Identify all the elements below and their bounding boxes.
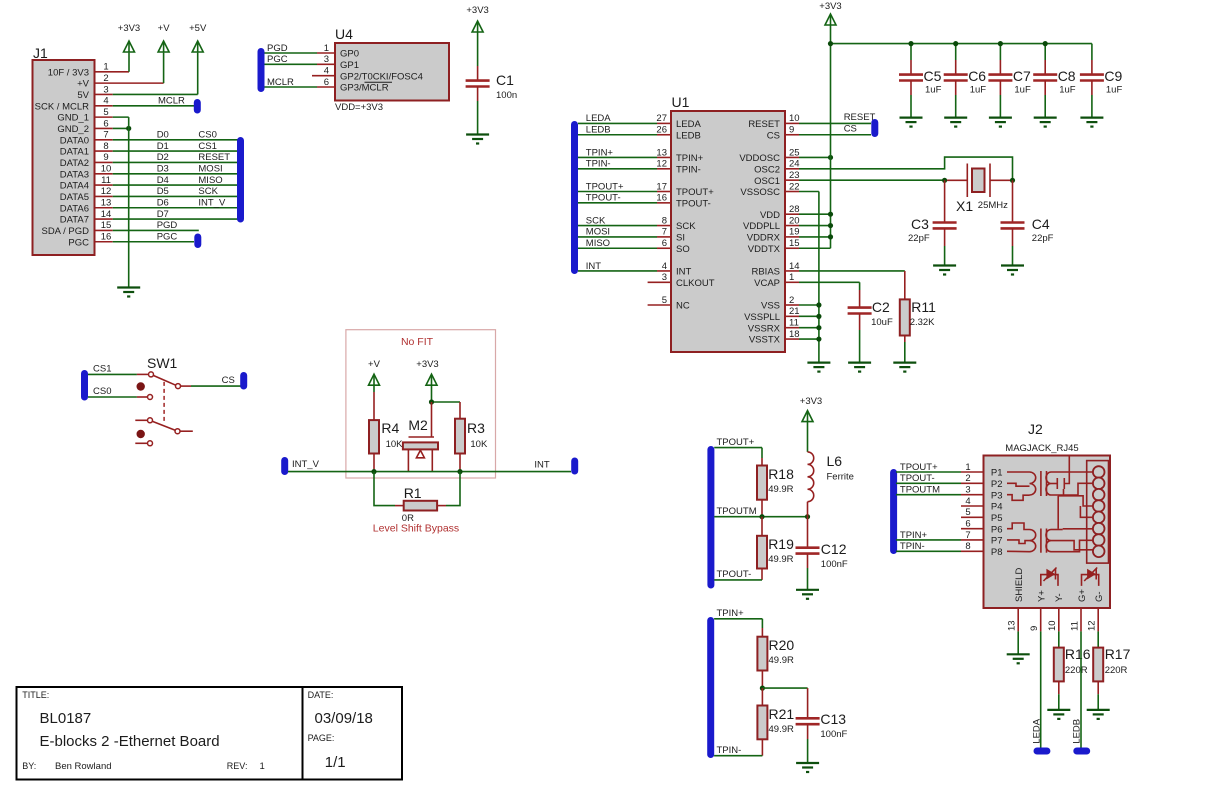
wire TPOUTM <box>714 516 807 518</box>
svg-text:PGC: PGC <box>68 237 89 248</box>
svg-text:49.9R: 49.9R <box>768 554 793 565</box>
svg-text:VDD=+3V3: VDD=+3V3 <box>335 102 383 113</box>
ground (C8) <box>1034 116 1057 118</box>
power +5V (J1) <box>192 41 203 52</box>
svg-text:D4: D4 <box>157 175 169 186</box>
svg-text:P1: P1 <box>991 468 1003 479</box>
svg-text:Y-: Y- <box>1054 593 1065 602</box>
svg-text:9: 9 <box>103 152 108 163</box>
svg-text:220R: 220R <box>1065 665 1088 676</box>
svg-text:+V: +V <box>77 79 90 90</box>
terminal INT_V <box>281 457 288 475</box>
svg-text:J1: J1 <box>33 45 48 61</box>
svg-text:25MHz: 25MHz <box>978 200 1008 211</box>
svg-text:DATA2: DATA2 <box>60 158 89 169</box>
svg-text:GP2/T0CKI/FOSC4: GP2/T0CKI/FOSC4 <box>340 71 423 82</box>
svg-text:CS: CS <box>844 123 857 134</box>
svg-text:OSC1: OSC1 <box>754 176 780 187</box>
junctions VSS rail <box>816 302 821 307</box>
svg-text:4: 4 <box>965 496 970 507</box>
svg-text:P2: P2 <box>991 479 1003 490</box>
power +3V3 (rail) <box>825 14 836 25</box>
svg-text:14: 14 <box>101 209 112 220</box>
terminal RESET/CS <box>871 119 878 137</box>
svg-text:+3V3: +3V3 <box>118 23 140 34</box>
svg-text:C8: C8 <box>1058 68 1076 84</box>
capacitor C1 <box>477 32 479 66</box>
resistor R11 <box>900 299 910 335</box>
wire +3V3 vertical rail <box>830 26 832 249</box>
transformer T2 (J2 bottom) <box>1007 523 1030 530</box>
svg-text:1: 1 <box>965 462 970 473</box>
ground (C7) <box>989 116 1012 118</box>
svg-text:VSSPLL: VSSPLL <box>744 312 780 323</box>
svg-text:J2: J2 <box>1028 421 1043 437</box>
svg-text:100nF: 100nF <box>821 559 848 570</box>
svg-text:GP0: GP0 <box>340 49 359 60</box>
svg-text:TPIN-: TPIN- <box>717 745 742 756</box>
wire J1 ground rail <box>128 117 130 287</box>
title block frame <box>17 687 403 780</box>
wires U1 VDD/VDDPLL/VDDRX/VDDTX <box>785 213 799 215</box>
IC U1 body <box>671 111 785 352</box>
svg-text:DATA3: DATA3 <box>60 169 89 180</box>
svg-text:1uF: 1uF <box>1106 85 1123 96</box>
svg-text:P6: P6 <box>991 524 1003 535</box>
capacitor C8 <box>1044 44 1046 60</box>
svg-text:R3: R3 <box>467 420 485 436</box>
svg-text:100n: 100n <box>496 90 517 101</box>
svg-text:LEDB: LEDB <box>586 125 611 136</box>
svg-text:INT: INT <box>676 267 692 278</box>
svg-text:LEDA: LEDA <box>586 113 611 124</box>
wire J1 pin1 to +3V3 <box>95 71 130 73</box>
junction rail C7 <box>998 41 1003 46</box>
svg-text:D3: D3 <box>157 164 169 175</box>
svg-text:CS: CS <box>767 130 780 141</box>
wire U1 OSC1 <box>785 179 799 181</box>
svg-text:D0: D0 <box>157 130 169 141</box>
svg-text:TPOUTM: TPOUTM <box>717 506 757 517</box>
svg-text:PAGE:: PAGE: <box>308 733 335 743</box>
capacitor C7 <box>999 44 1001 60</box>
wire J2 pin10 to R16 <box>1058 608 1060 631</box>
svg-text:9: 9 <box>789 125 794 136</box>
No FIT outline box <box>346 330 496 478</box>
svg-text:20: 20 <box>789 215 800 226</box>
svg-text:6: 6 <box>662 238 667 249</box>
svg-text:1uF: 1uF <box>1059 85 1076 96</box>
junction VDDOSC +3V3 <box>828 155 833 160</box>
ground (J1) <box>117 286 140 288</box>
svg-text:+V: +V <box>368 359 381 370</box>
svg-text:13: 13 <box>101 198 112 209</box>
svg-text:VSSRX: VSSRX <box>748 323 781 334</box>
svg-text:C1: C1 <box>496 72 514 88</box>
svg-text:VDDTX: VDDTX <box>748 244 781 255</box>
svg-text:VSSOSC: VSSOSC <box>740 187 780 198</box>
svg-text:12: 12 <box>1087 620 1098 631</box>
junction TPOUTM/R18 <box>759 514 764 519</box>
svg-text:R20: R20 <box>769 637 795 653</box>
svg-text:MISO: MISO <box>198 175 222 186</box>
svg-text:22pF: 22pF <box>908 233 930 244</box>
wire J1 pin15 PGD <box>95 229 113 231</box>
svg-text:10F / 3V3: 10F / 3V3 <box>48 67 89 78</box>
junction TPOUTM/L6 <box>805 514 810 519</box>
svg-text:X1: X1 <box>956 198 973 214</box>
terminal bar (SW1 left) <box>81 370 88 401</box>
svg-text:INT_V: INT_V <box>198 198 226 209</box>
svg-text:10: 10 <box>1047 620 1058 631</box>
svg-text:R11: R11 <box>911 299 936 315</box>
svg-text:INT: INT <box>534 460 550 471</box>
svg-text:U1: U1 <box>672 94 690 110</box>
svg-text:PGC: PGC <box>267 54 288 65</box>
svg-text:11: 11 <box>789 318 799 329</box>
SW1 pole indicator dot 1 <box>137 382 145 390</box>
svg-text:MCLR: MCLR <box>267 77 294 88</box>
svg-text:SCK: SCK <box>198 186 218 197</box>
resistor R1 <box>374 472 395 506</box>
svg-text:7: 7 <box>103 130 108 141</box>
wire TPOUT- to J2 pin2 <box>896 482 961 484</box>
junction R4/R1 <box>371 469 376 474</box>
power +3V3 (L6) <box>802 411 813 422</box>
wire CS1 <box>88 373 137 375</box>
wire TPOUT+ <box>714 447 762 449</box>
svg-text:VDDPLL: VDDPLL <box>743 221 780 232</box>
svg-text:8: 8 <box>103 141 108 152</box>
svg-text:1: 1 <box>103 62 108 73</box>
svg-text:RESET: RESET <box>844 112 876 123</box>
svg-text:C5: C5 <box>924 68 942 84</box>
svg-text:R1: R1 <box>404 485 422 501</box>
wire U1 CS <box>785 134 799 136</box>
junction rail/+3V3 <box>828 41 833 46</box>
resistor R4 <box>373 385 375 392</box>
svg-text:49.9R: 49.9R <box>768 484 793 495</box>
terminal bar (U4 left) <box>258 48 265 92</box>
svg-text:1/1: 1/1 <box>325 754 346 771</box>
svg-text:1: 1 <box>324 43 329 54</box>
svg-text:D7: D7 <box>157 209 169 220</box>
power +3V3 (M2) <box>426 374 437 385</box>
svg-text:3: 3 <box>662 272 667 283</box>
resistor R17 <box>1093 648 1103 682</box>
wire TPIN- <box>714 755 762 757</box>
wire J1 pin6 GND <box>95 127 113 129</box>
resistor R3 <box>459 402 461 419</box>
svg-text:CS1: CS1 <box>93 364 111 375</box>
svg-text:TPIN-: TPIN- <box>586 159 611 170</box>
junction R3/R1 <box>457 469 462 474</box>
svg-text:19: 19 <box>789 227 800 238</box>
power +3V3 (C1) <box>472 21 483 32</box>
terminal INT <box>571 458 578 475</box>
svg-text:DATA5: DATA5 <box>60 192 89 203</box>
svg-text:R18: R18 <box>768 466 794 482</box>
svg-text:C3: C3 <box>911 216 929 232</box>
power +3V3 (J1) <box>124 41 135 52</box>
terminal PGC (J1) <box>194 234 201 249</box>
wire +3V3 top rail <box>831 43 1092 45</box>
svg-text:+3V3: +3V3 <box>800 396 822 407</box>
wire J2 pin11 to LEDB <box>1080 608 1082 631</box>
ground (R16) <box>1047 709 1070 711</box>
svg-text:+3V3: +3V3 <box>416 359 438 370</box>
capacitor C9 <box>1091 44 1093 60</box>
svg-text:RESET: RESET <box>748 119 780 130</box>
wires J1 data bus D0-D7 <box>95 139 113 141</box>
svg-text:TPOUT+: TPOUT+ <box>900 462 938 473</box>
svg-text:TPOUT-: TPOUT- <box>676 198 711 209</box>
svg-text:DATA4: DATA4 <box>60 181 89 192</box>
svg-text:13: 13 <box>656 147 667 158</box>
transformer T1 (J2 top) <box>1007 471 1030 473</box>
wire PGD to U4 pin1 <box>265 52 318 54</box>
svg-text:DATE:: DATE: <box>308 690 334 700</box>
resistor R18 <box>761 448 763 458</box>
svg-text:1uF: 1uF <box>970 85 987 96</box>
ground (U1 VSS) <box>807 362 830 364</box>
svg-text:VDDOSC: VDDOSC <box>739 153 780 164</box>
svg-text:26: 26 <box>656 125 667 136</box>
resistor R21 <box>761 688 763 705</box>
svg-text:REV:: REV: <box>227 761 248 771</box>
svg-text:TPOUT-: TPOUT- <box>586 193 621 204</box>
svg-text:E-blocks 2 -Ethernet Board: E-blocks 2 -Ethernet Board <box>40 733 220 750</box>
junctions VDD rail <box>828 212 833 217</box>
wire +3V3 to M2/R3 <box>431 385 433 402</box>
ground (R11) <box>893 362 916 364</box>
svg-text:BL0187: BL0187 <box>40 710 92 727</box>
svg-text:220R: 220R <box>1105 665 1128 676</box>
capacitor C5 <box>910 44 912 60</box>
terminal bus bar (J1 data) <box>237 137 244 223</box>
svg-text:Ben Rowland: Ben Rowland <box>55 761 112 772</box>
svg-text:CS0: CS0 <box>93 386 111 397</box>
svg-text:7: 7 <box>662 227 667 238</box>
wire TPIN+ to J2 pin7 <box>896 539 961 541</box>
wire J1 pin3 to +5V <box>95 93 113 95</box>
pin stub J2 pin5 <box>961 516 984 518</box>
wire CS <box>181 385 192 387</box>
junction M2 gate <box>429 399 434 404</box>
ground (C12) <box>796 589 819 591</box>
ground (C5) <box>900 116 923 118</box>
svg-text:27: 27 <box>656 113 667 124</box>
terminal bar (U1 left) <box>571 121 578 274</box>
svg-text:6: 6 <box>324 77 329 88</box>
svg-text:M2: M2 <box>408 417 428 433</box>
svg-text:LEDA: LEDA <box>676 119 701 130</box>
junction OSC2/C4/X1 <box>1010 178 1015 183</box>
svg-text:4: 4 <box>662 261 667 272</box>
svg-text:MAGJACK_RJ45: MAGJACK_RJ45 <box>1005 443 1078 454</box>
terminal bar (TPIN) <box>707 617 714 758</box>
wire R20/C13 <box>762 687 807 689</box>
svg-text:MCLR: MCLR <box>158 96 185 107</box>
terminal MCLR <box>194 99 201 114</box>
svg-text:SI: SI <box>676 233 685 244</box>
svg-text:2: 2 <box>965 473 970 484</box>
svg-text:14: 14 <box>789 261 800 272</box>
svg-text:TPIN+: TPIN+ <box>676 153 704 164</box>
svg-text:12: 12 <box>656 159 667 170</box>
wire INT_V to INT <box>288 471 571 473</box>
svg-text:9: 9 <box>1029 626 1040 631</box>
svg-text:TPOUT+: TPOUT+ <box>717 437 755 448</box>
svg-text:L6: L6 <box>827 453 843 469</box>
svg-text:CS1: CS1 <box>198 141 216 152</box>
wire J1 pin5 GND <box>95 116 113 118</box>
svg-text:4: 4 <box>103 96 108 107</box>
SW1 gang dashed link <box>163 382 165 423</box>
svg-text:OSC2: OSC2 <box>754 164 780 175</box>
svg-text:TPIN+: TPIN+ <box>586 147 614 158</box>
pin stub U1 NC <box>648 304 671 306</box>
power +V (R4) <box>369 374 380 385</box>
svg-text:P7: P7 <box>991 536 1003 547</box>
wire PGC to U4 pin3 <box>265 63 318 65</box>
ground (C13) <box>796 762 819 764</box>
svg-text:SO: SO <box>676 244 690 255</box>
svg-text:P3: P3 <box>991 490 1003 501</box>
svg-text:5: 5 <box>965 507 970 518</box>
svg-text:SHIELD: SHIELD <box>1014 568 1025 602</box>
svg-text:LEDA: LEDA <box>1032 718 1043 743</box>
wire J2 pin12 to R17 <box>1097 608 1099 631</box>
svg-text:2: 2 <box>789 295 794 306</box>
svg-text:BY:: BY: <box>22 761 36 771</box>
svg-text:03/09/18: 03/09/18 <box>315 710 373 727</box>
svg-text:11: 11 <box>1070 621 1081 631</box>
svg-text:5: 5 <box>662 295 667 306</box>
svg-text:1uF: 1uF <box>925 85 942 96</box>
svg-text:8: 8 <box>662 215 667 226</box>
svg-text:INT: INT <box>586 261 602 272</box>
junction rail C8 <box>1043 41 1048 46</box>
svg-text:18: 18 <box>789 329 800 340</box>
terminal bar (TPOUT) <box>707 446 714 589</box>
svg-text:Y+: Y+ <box>1037 590 1048 602</box>
svg-text:+3V3: +3V3 <box>819 1 841 12</box>
LED symbol G (J2) <box>1082 575 1099 586</box>
svg-text:DATA0: DATA0 <box>60 135 89 146</box>
svg-text:VDD: VDD <box>760 210 780 221</box>
capacitor C12 <box>807 517 809 548</box>
svg-text:D5: D5 <box>157 186 169 197</box>
svg-text:C7: C7 <box>1013 68 1031 84</box>
svg-text:15: 15 <box>101 220 112 231</box>
svg-text:NC: NC <box>676 301 690 312</box>
crystal X1 <box>947 179 967 181</box>
svg-text:C12: C12 <box>821 541 847 557</box>
pin stub U4 pin4 <box>312 75 335 77</box>
svg-text:DATA1: DATA1 <box>60 147 89 158</box>
svg-text:PGC: PGC <box>157 232 178 243</box>
connector J2 body <box>984 456 1111 609</box>
svg-text:7: 7 <box>965 530 970 541</box>
pin stub J2 pin4 <box>961 505 984 507</box>
svg-text:16: 16 <box>101 232 112 243</box>
svg-text:P5: P5 <box>991 513 1003 524</box>
junction rail C5 <box>908 41 913 46</box>
wire U1 RBIAS <box>785 270 799 272</box>
wire TPOUT+ to J2 pin1 <box>896 471 961 473</box>
svg-text:22: 22 <box>789 181 800 192</box>
svg-text:22pF: 22pF <box>1032 233 1054 244</box>
svg-text:25: 25 <box>789 147 800 158</box>
svg-text:11: 11 <box>101 175 111 186</box>
capacitor C2 <box>848 306 872 309</box>
wire TPOUT- <box>714 579 762 581</box>
wire U1 OSC2 <box>785 168 799 170</box>
svg-text:23: 23 <box>789 170 800 181</box>
svg-text:1: 1 <box>260 761 265 772</box>
svg-text:D1: D1 <box>157 141 169 152</box>
SW1 pole 1 contacts <box>149 372 154 377</box>
junction OSC1/C3/X1 <box>942 178 947 183</box>
svg-text:MOSI: MOSI <box>586 227 610 238</box>
svg-text:MOSI: MOSI <box>198 164 222 175</box>
svg-text:10K: 10K <box>470 439 488 450</box>
svg-text:TITLE:: TITLE: <box>22 690 49 700</box>
svg-text:C4: C4 <box>1032 216 1050 232</box>
svg-text:SDA / PGD: SDA / PGD <box>41 226 89 237</box>
svg-text:TPOUT+: TPOUT+ <box>586 181 624 192</box>
wire MCLR to U4 pin6 <box>265 86 318 88</box>
svg-text:DATA7: DATA7 <box>60 215 89 226</box>
resistor R16 <box>1054 648 1064 682</box>
J2 pin13 SHIELD stub <box>1017 608 1019 631</box>
svg-text:R21: R21 <box>769 706 795 722</box>
svg-text:10: 10 <box>789 113 800 124</box>
wire TPOUTM to J2 pin3 <box>896 494 961 496</box>
svg-text:5V: 5V <box>77 90 89 101</box>
wire J1 pin4 MCLR <box>95 105 113 107</box>
svg-text:CS: CS <box>222 375 235 386</box>
svg-text:MISO: MISO <box>586 238 610 249</box>
inductor L6 <box>807 422 809 452</box>
junction rail C6 <box>953 41 958 46</box>
ground (C9) <box>1080 116 1103 118</box>
pin stub U1 CLKOUT <box>648 281 671 283</box>
connector J1 body <box>33 60 95 255</box>
svg-text:TPOUT-: TPOUT- <box>717 569 752 580</box>
junction J1 GND <box>126 126 131 131</box>
svg-text:C2: C2 <box>872 299 890 315</box>
svg-text:5: 5 <box>103 107 108 118</box>
resistor R19 <box>761 517 763 536</box>
terminal bar (J2 left) <box>890 469 897 554</box>
svg-text:Ferrite: Ferrite <box>827 472 854 483</box>
svg-text:DATA6: DATA6 <box>60 203 89 214</box>
svg-text:6: 6 <box>103 118 108 129</box>
SW1 pole 2 contacts <box>135 419 147 421</box>
svg-text:INT_V: INT_V <box>292 459 320 470</box>
ground (C1) <box>466 133 489 135</box>
wire TPIN+ <box>714 618 762 620</box>
svg-text:TPOUTM: TPOUTM <box>900 484 940 495</box>
svg-text:SCK / MCLR: SCK / MCLR <box>35 101 90 112</box>
wire U1 VDDOSC <box>785 156 799 158</box>
svg-text:49.9R: 49.9R <box>769 724 794 735</box>
svg-text:D2: D2 <box>157 152 169 163</box>
svg-text:TPIN+: TPIN+ <box>900 530 928 541</box>
svg-text:SW1: SW1 <box>147 355 178 371</box>
